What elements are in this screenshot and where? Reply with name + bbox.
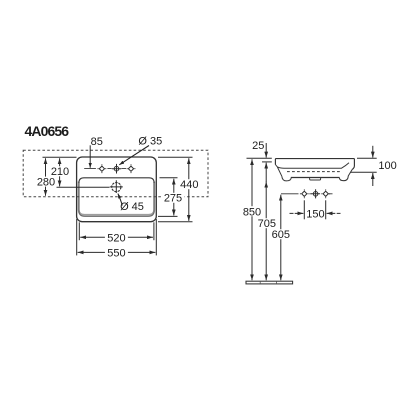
dimension line 440 (188, 158, 190, 221)
washbasin plan view: outer rim (77, 157, 157, 222)
elevation basin inner rim line (277, 163, 349, 169)
svg-text:150: 150 (306, 208, 324, 220)
svg-text:4A0656: 4A0656 (25, 123, 70, 139)
elevation view: ledge line for 25 (262, 161, 272, 163)
washbasin plan view: bowl shadow sides and bottom (79, 182, 155, 215)
dimension 100 upper leader (372, 146, 374, 158)
dimension 150 left arrow (290, 212, 304, 214)
extension lines for 150 (303, 200, 305, 219)
dimension line 705 (265, 182, 267, 281)
dashed reference rectangle (23, 150, 208, 197)
svg-text:550: 550 (107, 247, 125, 259)
wall fixing holes centerline (281, 193, 333, 195)
dimension 25 lower leader (265, 163, 267, 182)
svg-text:440: 440 (180, 179, 198, 191)
dimension line 520 (80, 236, 153, 238)
extension lines for 520 (78, 222, 80, 240)
elevation basin left foot (282, 176, 291, 181)
dimension 150 right arrow (327, 212, 341, 214)
elevation view: rim extension line left (247, 157, 272, 159)
dimension 25 upper leader (265, 143, 267, 158)
svg-text:275: 275 (164, 193, 182, 205)
elevation basin bottom line (291, 177, 340, 179)
dimension line 280 (45, 158, 47, 196)
washbasin plan view: inner bowl top edge (79, 178, 154, 183)
svg-text:25: 25 (252, 140, 264, 152)
faucet side hole left (99, 166, 104, 171)
dimension 85 leader line (89, 145, 91, 168)
elevation basin middle tab (310, 178, 321, 180)
svg-text:850: 850 (243, 207, 261, 219)
extension lines for 550 (76, 219, 78, 255)
faucet side hole right (128, 166, 133, 171)
dimension line 550 (78, 251, 156, 253)
faucet hole centerline (84, 168, 126, 170)
elevation basin hidden bottom (dashed) (287, 171, 342, 173)
dimension 100 lower leader (372, 173, 374, 186)
elevation basin outline top rim (275, 159, 354, 170)
dimension line 605 (280, 195, 282, 281)
dimension line 210 (59, 158, 61, 186)
extension lines for 275 (160, 177, 178, 179)
faucet center hole Ø35 (114, 166, 119, 171)
drain hole Ø45 (112, 183, 121, 192)
svg-text:Ø 45: Ø 45 (120, 201, 144, 213)
wall fixing hole right (323, 191, 328, 196)
elevation basin right foot (339, 170, 352, 181)
washbasin plan view: inner bowl bottom edge (79, 183, 154, 217)
leader arrow to faucet hole (119, 146, 149, 165)
dimension line 275 (173, 179, 175, 216)
svg-text:85: 85 (91, 136, 103, 148)
elevation basin left step (275, 165, 281, 177)
svg-text:100: 100 (378, 160, 396, 172)
svg-text:520: 520 (107, 232, 125, 244)
svg-text:Ø 35: Ø 35 (138, 136, 162, 148)
extension line top for 210/280 (43, 156, 77, 158)
extension lines for 440 (158, 156, 193, 158)
leader arrow to drain (118, 194, 122, 206)
svg-text:605: 605 (272, 229, 290, 241)
wall fixing hole left (302, 191, 307, 196)
dimension line 850 (251, 159, 253, 280)
extension lines for 100 (357, 157, 377, 159)
floor line (246, 281, 293, 284)
extension line bottom for 210 / drain row (57, 186, 110, 188)
wall fixing hole center (313, 192, 318, 197)
svg-text:280: 280 (37, 177, 55, 189)
